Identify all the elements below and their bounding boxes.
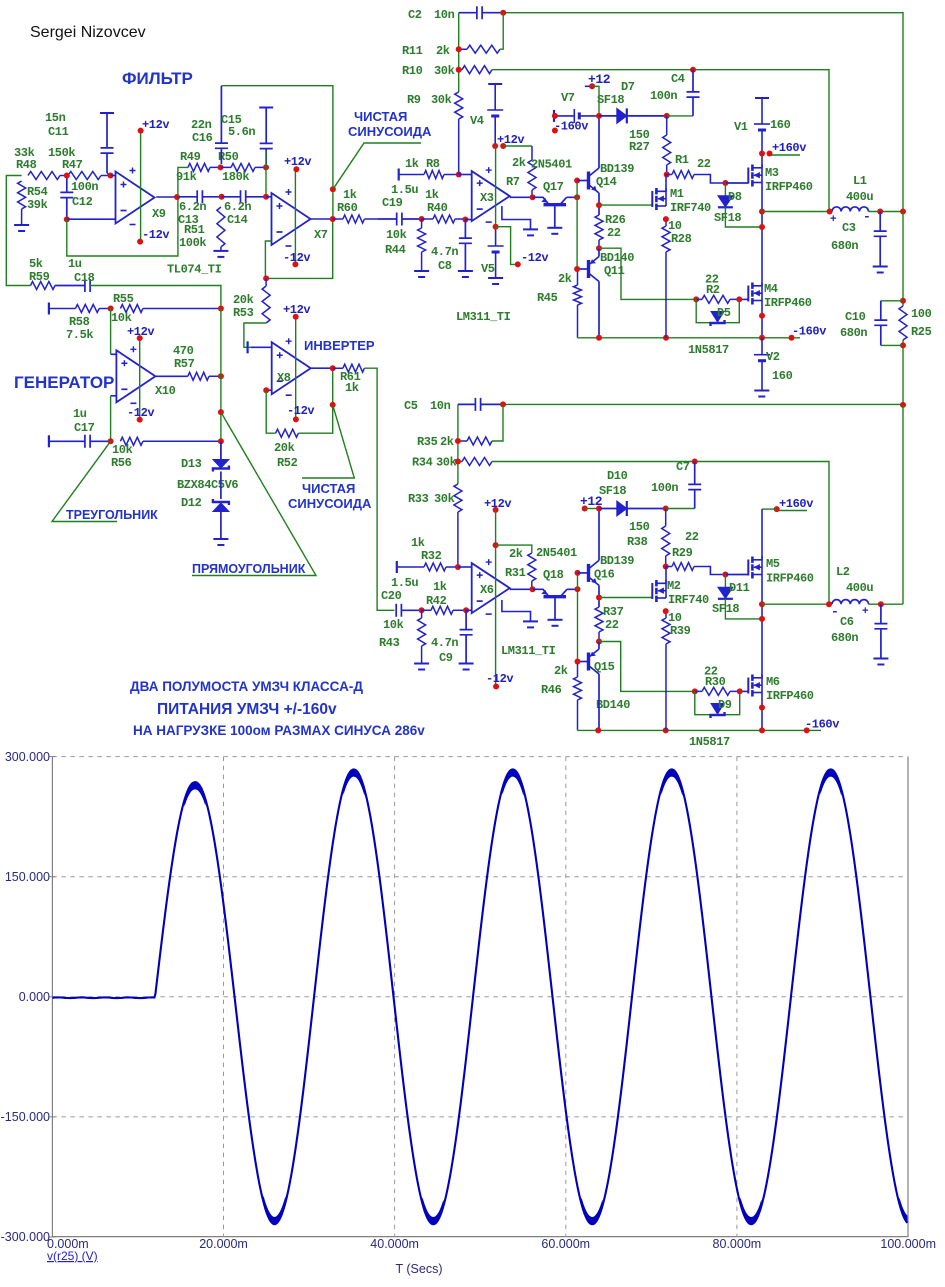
svg-text:470: 470 (173, 344, 194, 358)
svg-text:4.7n: 4.7n (431, 636, 458, 650)
svg-text:-160v: -160v (805, 718, 839, 732)
node C20-R43 (419, 607, 425, 613)
svg-text:0.000: 0.000 (19, 990, 50, 1004)
resistor R7 (528, 146, 536, 197)
svg-text:100n: 100n (650, 89, 677, 103)
svg-text:-12v: -12v (142, 228, 169, 242)
svg-text:300.000: 300.000 (5, 750, 50, 764)
op-amp X8 (251, 346, 272, 348)
svg-text:2k: 2k (558, 272, 572, 286)
capacitor C5 (458, 398, 503, 411)
mosfet M4 IRFP460 (747, 286, 749, 302)
svg-text:2k: 2k (509, 547, 523, 561)
svg-text:C10: C10 (845, 310, 866, 324)
svg-text:V5: V5 (481, 262, 495, 276)
wire Q16 collector (598, 509, 600, 561)
capacitor C16 (215, 86, 228, 164)
resistor R2 (696, 295, 739, 303)
svg-text:160: 160 (770, 118, 791, 132)
wire gate drive M6 (599, 642, 695, 692)
svg-text:10k: 10k (112, 443, 133, 457)
battery V7 (553, 110, 555, 122)
svg-text:ФИЛЬТР: ФИЛЬТР (122, 69, 193, 88)
wire M5 source column (761, 575, 763, 678)
node X7 +input (263, 194, 269, 200)
svg-text:BD139: BD139 (600, 162, 634, 176)
transistor Q16 BD139 (578, 572, 589, 574)
node R10 (456, 67, 462, 73)
svg-text:680n: 680n (831, 239, 858, 253)
node X9 +input (108, 173, 114, 179)
svg-text:LM311_TI: LM311_TI (456, 310, 511, 324)
resistor R40 (422, 215, 466, 223)
svg-text:R2: R2 (706, 283, 720, 297)
svg-text:40.000m: 40.000m (370, 1237, 419, 1251)
wire C5 bus vertical (457, 404, 459, 484)
svg-text:SF18: SF18 (599, 484, 626, 498)
svg-text:400u: 400u (846, 581, 873, 595)
svg-text:20k: 20k (233, 293, 254, 307)
transistor Q14 BD139 (577, 180, 588, 182)
resistor R44 (418, 219, 426, 271)
node M1 source (663, 216, 669, 222)
pointer treugolnik (52, 441, 117, 521)
svg-text:60.000m: 60.000m (541, 1237, 590, 1251)
node L1 left (827, 209, 833, 215)
resistor R43 (418, 610, 426, 663)
node D10 anode rail (596, 506, 602, 512)
svg-text:Q18: Q18 (543, 568, 564, 582)
capacitor C7 (666, 508, 695, 510)
svg-text:R54: R54 (27, 185, 48, 199)
wire X8 supply (295, 317, 297, 420)
svg-text:C3: C3 (842, 221, 856, 235)
capacitor C4 (667, 115, 693, 117)
mosfet M3 IRFP460 (725, 182, 748, 184)
capacitor C13 (177, 190, 222, 203)
node M2 source (663, 608, 669, 614)
diode D8 SF18 (724, 183, 726, 196)
wire generator bus (220, 309, 222, 460)
node Q16 emitter (596, 595, 602, 601)
svg-text:100n: 100n (71, 180, 98, 194)
svg-text:+: + (862, 606, 869, 618)
ground X6 (523, 620, 538, 622)
resistor R48 (28, 172, 67, 180)
svg-text:R38: R38 (627, 535, 648, 549)
svg-text:M1: M1 (670, 187, 684, 201)
svg-text:+: + (830, 214, 837, 226)
plot gridlines horizontal (52, 756, 908, 758)
resistor R57 (188, 372, 221, 380)
node R27 top (664, 113, 670, 119)
inductor L1 (762, 211, 832, 213)
resistor R60 (333, 215, 378, 223)
svg-text:Q17: Q17 (543, 180, 564, 194)
wire X7 supply (294, 169, 296, 264)
resistor R34 (458, 458, 492, 466)
wire M6 gate lead (740, 690, 749, 692)
svg-text:C11: C11 (48, 125, 69, 139)
svg-text:2k: 2k (436, 44, 450, 58)
svg-text:2k: 2k (440, 435, 454, 449)
wire -160v rail 1 (578, 337, 801, 339)
svg-text:X7: X7 (314, 228, 328, 242)
svg-text:X8: X8 (277, 371, 291, 385)
node X8 output (330, 365, 336, 371)
svg-text:C7: C7 (676, 460, 690, 474)
svg-text:R51: R51 (184, 223, 205, 237)
svg-text:R48: R48 (16, 158, 37, 172)
resistor R52 (276, 429, 299, 437)
wire Q11 collector (598, 282, 600, 338)
port input R32 (396, 561, 398, 573)
svg-text:Q16: Q16 (594, 568, 615, 582)
ground R43 (414, 663, 429, 665)
capacitor C6 (874, 604, 887, 658)
svg-text:1N5817: 1N5817 (688, 343, 729, 357)
svg-text:R32: R32 (421, 549, 442, 563)
svg-text:R33: R33 (408, 492, 429, 506)
resistor R8 (399, 171, 459, 179)
svg-text:D11: D11 (729, 581, 750, 595)
svg-text:C5: C5 (404, 399, 418, 413)
svg-text:R9: R9 (407, 93, 421, 107)
capacitor C18 (55, 279, 90, 292)
plot gridlines vertical (223, 757, 225, 1237)
resistor R27 (663, 116, 671, 175)
svg-text:Sergei Nizovcev: Sergei Nizovcev (30, 24, 146, 41)
resistor R54 (18, 181, 26, 225)
svg-text:30k: 30k (434, 64, 455, 78)
wire C18 to bus (90, 286, 221, 309)
resistor R30 (695, 687, 740, 695)
transistor Q17 (533, 197, 550, 204)
svg-text:30k: 30k (431, 93, 452, 107)
svg-text:D13: D13 (181, 457, 202, 471)
node Q17 collector (574, 194, 580, 200)
mosfet M5 IRFP460 (725, 574, 748, 576)
svg-text:R43: R43 (379, 636, 400, 650)
resistor R53 (262, 278, 270, 323)
node R34 (455, 459, 461, 465)
svg-text:-12v: -12v (287, 404, 314, 418)
svg-text:1u: 1u (68, 257, 82, 271)
svg-text:-12v: -12v (486, 672, 513, 686)
svg-text:SF18: SF18 (712, 602, 739, 616)
svg-text:D12: D12 (181, 496, 202, 510)
node R48-R47 (64, 173, 70, 179)
svg-text:1k: 1k (345, 381, 359, 395)
wire X10 supply (139, 338, 141, 420)
wire -160v rail 2 (578, 729, 822, 731)
svg-text:22: 22 (697, 157, 711, 171)
svg-text:1.5u: 1.5u (391, 576, 418, 590)
node M3 gate (722, 180, 728, 186)
ground R44 (414, 270, 429, 272)
svg-text:+12v: +12v (142, 118, 169, 132)
svg-text:20k: 20k (274, 441, 295, 455)
port input C17 (48, 435, 50, 447)
capacitor C15 (259, 107, 273, 109)
svg-text:R57: R57 (174, 357, 195, 371)
resistor R32 (397, 563, 458, 571)
wire M2 drain (665, 567, 667, 584)
svg-text:X6: X6 (480, 583, 494, 597)
svg-text:10k: 10k (386, 228, 407, 242)
transistor Q15 BD140 (578, 661, 589, 663)
svg-text:C14: C14 (227, 213, 248, 227)
wire R61 down to module2 (364, 368, 394, 610)
wire Q15 emitter (598, 642, 600, 650)
svg-text:-300.000: -300.000 (1, 1230, 50, 1244)
svg-text:ТРЕУГОЛЬНИК: ТРЕУГОЛЬНИК (66, 508, 158, 522)
svg-text:5k: 5k (29, 257, 43, 271)
svg-text:R59: R59 (29, 270, 50, 284)
wire left bus (6, 176, 30, 286)
node D7 anode rail (596, 113, 602, 119)
node X6 out (530, 586, 536, 592)
svg-text:10: 10 (668, 611, 682, 625)
svg-text:C2: C2 (408, 8, 422, 22)
svg-text:ПРЯМОУГОЛЬНИК: ПРЯМОУГОЛЬНИК (192, 562, 306, 576)
capacitor C20 (396, 604, 421, 617)
resistor R9 (455, 92, 463, 175)
svg-text:R52: R52 (277, 456, 298, 470)
wire Q14 collector (598, 116, 600, 168)
resistor R26 (595, 215, 603, 248)
resistor R28 (662, 219, 670, 338)
svg-text:IRFP460: IRFP460 (765, 180, 813, 194)
diode D11 SF18 (724, 575, 726, 588)
svg-text:2N5401: 2N5401 (531, 158, 572, 172)
wire +12 vertical 1 (592, 86, 599, 116)
svg-text:ГЕНЕРАТОР: ГЕНЕРАТОР (14, 373, 114, 392)
wire -12v jog (496, 227, 518, 265)
capacitor C9 (460, 610, 473, 663)
wire R29 to M5 gate (694, 567, 725, 575)
svg-text:-160v: -160v (792, 325, 826, 339)
svg-text:30k: 30k (436, 456, 457, 470)
svg-text:10k: 10k (383, 618, 404, 632)
node M5 gate (722, 572, 728, 578)
svg-text:V7: V7 (561, 91, 575, 105)
ground R51 (213, 250, 228, 252)
svg-text:1.5u: 1.5u (391, 183, 418, 197)
svg-text:C8: C8 (438, 259, 452, 273)
svg-text:R40: R40 (427, 201, 448, 215)
svg-text:30k: 30k (434, 492, 455, 506)
node C7 tap (692, 459, 698, 465)
ground C6 (873, 658, 888, 660)
svg-text:2k: 2k (512, 156, 526, 170)
svg-text:80.000m: 80.000m (713, 1237, 762, 1251)
svg-text:M3: M3 (765, 166, 779, 180)
node R38 bottom (663, 564, 669, 570)
mosfet M6 IRFP460 (747, 678, 749, 694)
svg-text:SF18: SF18 (714, 211, 741, 225)
wire L2 to bus (902, 405, 904, 604)
node R11 (456, 46, 462, 52)
node R26 bottom (596, 245, 602, 251)
diode D7 (599, 115, 617, 117)
node R50-C15 (263, 164, 269, 170)
resistor R31 (528, 553, 536, 589)
wire M2 gate (599, 597, 652, 599)
ground C3 (873, 266, 888, 268)
node output bus mid (900, 402, 906, 408)
resistor R61 (333, 364, 365, 372)
resistor R51 (217, 207, 225, 251)
svg-text:BZX84C5V6: BZX84C5V6 (177, 478, 238, 492)
svg-text:IRF740: IRF740 (670, 201, 711, 215)
node C5-R35 (500, 401, 506, 407)
svg-text:R30: R30 (705, 675, 726, 689)
node Q16 base (575, 570, 581, 576)
svg-text:L1: L1 (853, 174, 867, 188)
pointer sinusoida 2 (302, 405, 354, 478)
node V5 top (493, 224, 499, 230)
node R37 bottom (596, 639, 602, 645)
wire X3 supply (495, 146, 497, 227)
svg-text:СИНУСОИДА: СИНУСОИДА (348, 124, 432, 139)
port input R58 (48, 303, 50, 315)
svg-text:10: 10 (668, 219, 682, 233)
inductor L2 (762, 603, 832, 605)
svg-text:7.5k: 7.5k (66, 328, 93, 342)
svg-text:6.2n: 6.2n (224, 200, 251, 214)
port input R8 (398, 169, 400, 181)
node L1 bus (900, 209, 906, 215)
svg-text:BD140: BD140 (596, 698, 630, 712)
svg-text:v(r25) (V): v(r25) (V) (47, 1249, 98, 1263)
node R30 right (737, 688, 743, 694)
wire M4 source (761, 301, 763, 338)
node C12 bottom (64, 216, 70, 222)
capacitor C2 (459, 6, 504, 19)
capacitor C8 (459, 220, 472, 272)
wire M5 drain (762, 508, 777, 510)
wire driver input bus 1 (576, 181, 578, 272)
svg-text:СИНУСОИДА: СИНУСОИДА (288, 496, 372, 511)
node X6 +input (455, 564, 461, 570)
svg-text:100.000m: 100.000m (880, 1237, 936, 1251)
svg-text:-12v: -12v (521, 251, 548, 265)
wire D9 bracket (695, 691, 740, 714)
wire Q11 emitter (598, 248, 600, 256)
capacitor C19 (378, 213, 422, 226)
svg-text:R11: R11 (402, 44, 423, 58)
wire X9 supply (140, 131, 142, 242)
wire C5 long line (503, 403, 903, 405)
comparator X6 (458, 566, 472, 568)
svg-text:IRFP460: IRFP460 (766, 689, 814, 703)
svg-text:R35: R35 (417, 435, 438, 449)
svg-text:R58: R58 (69, 315, 90, 329)
resistor R37 (595, 607, 603, 642)
svg-text:BD140: BD140 (600, 251, 634, 265)
op-amp X7 (266, 196, 272, 198)
resistor R29 (666, 563, 694, 571)
node R52 riser (330, 402, 336, 408)
svg-text:L2: L2 (836, 565, 850, 579)
wire Q15 collector (598, 674, 600, 730)
svg-text:BD139: BD139 (600, 554, 634, 568)
svg-text:T (Secs): T (Secs) (396, 1262, 443, 1276)
wire Q16 emitter (598, 585, 600, 607)
transistor Q18 (533, 589, 550, 596)
pointer line sinusoida 1 (333, 143, 421, 189)
rail nodes 2 (595, 727, 601, 733)
wire X7 feedback (265, 219, 332, 278)
svg-text:IRFP460: IRFP460 (766, 572, 814, 586)
node Q14 emitter (596, 202, 602, 208)
node C2-R11 (500, 10, 506, 16)
capacitor C17 (49, 435, 111, 448)
svg-text:Q15: Q15 (594, 660, 615, 674)
svg-text:V4: V4 (470, 114, 484, 128)
pointer pryamougolnik (192, 412, 316, 575)
svg-text:R49: R49 (180, 150, 201, 164)
svg-text:R8: R8 (426, 157, 440, 171)
node D11 return (759, 616, 765, 622)
resistor R56 (120, 437, 220, 445)
node C17-R56 (108, 438, 114, 444)
svg-text:C9: C9 (439, 651, 453, 665)
node C19-R44 (419, 216, 425, 222)
node Q11 base (574, 266, 580, 272)
svg-text:R60: R60 (337, 201, 358, 215)
wire input bus vertical (458, 13, 460, 92)
svg-text:C16: C16 (192, 131, 213, 145)
node R56 right (218, 438, 224, 444)
ground R54 (14, 224, 29, 226)
svg-text:-: - (831, 604, 838, 619)
svg-text:R28: R28 (671, 232, 692, 246)
svg-text:-160v: -160v (554, 120, 588, 134)
svg-text:+160v: +160v (779, 497, 813, 511)
svg-text:M5: M5 (766, 557, 780, 571)
svg-text:1k: 1k (411, 536, 425, 550)
ground V5 (488, 277, 503, 279)
resistor R55 (120, 305, 220, 313)
capacitor C3 (874, 212, 887, 267)
node X3 -input (462, 217, 468, 223)
svg-text:5.6n: 5.6n (228, 125, 255, 139)
wire M6 source (761, 693, 763, 731)
svg-text:1k: 1k (433, 580, 447, 594)
svg-text:4.7n: 4.7n (431, 245, 458, 259)
wire output bus (902, 212, 904, 307)
node R55 right (218, 306, 224, 312)
node Q15 base (575, 659, 581, 665)
svg-text:1u: 1u (73, 407, 87, 421)
wire R34 long line (492, 462, 829, 605)
svg-text:C12: C12 (72, 195, 93, 209)
svg-text:1N5817: 1N5817 (689, 735, 730, 749)
node X6 -input (463, 607, 469, 613)
svg-text:R1: R1 (675, 153, 689, 167)
svg-text:C4: C4 (671, 72, 685, 86)
wire driver input bus 2 (577, 573, 579, 664)
svg-text:400u: 400u (846, 190, 873, 204)
mosfet M2 IRF740 (651, 583, 653, 599)
node M4 source (759, 313, 765, 319)
svg-text:Q14: Q14 (596, 175, 617, 189)
comparator X3 (459, 174, 472, 176)
svg-text:22n: 22n (191, 118, 212, 132)
svg-text:6.2n: 6.2n (179, 200, 206, 214)
